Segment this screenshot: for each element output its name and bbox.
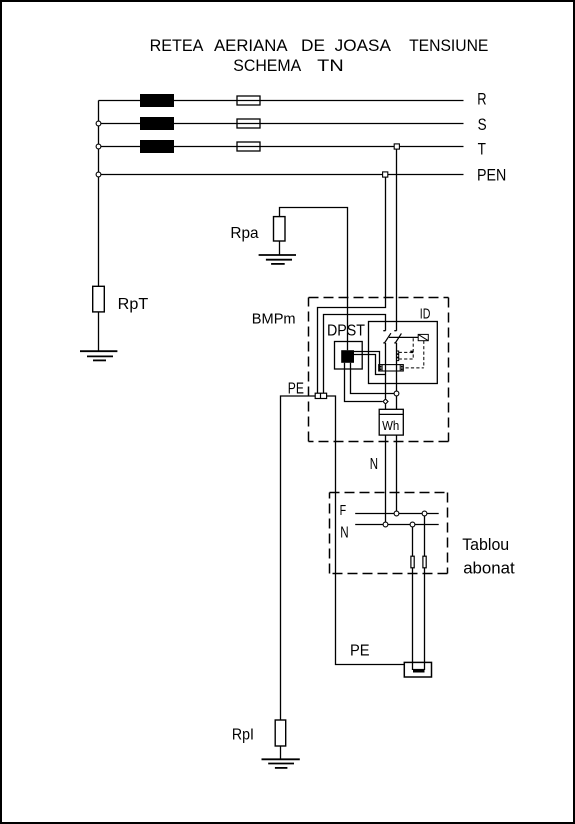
svg-text:SCHEMA: SCHEMA: [233, 56, 302, 75]
svg-text:RpI: RpI: [232, 726, 254, 743]
svg-text:TN: TN: [317, 56, 344, 75]
svg-text:F: F: [340, 503, 347, 519]
svg-text:DE: DE: [301, 36, 325, 55]
svg-text:Tablou: Tablou: [462, 535, 509, 554]
svg-text:N: N: [340, 524, 348, 541]
svg-text:N: N: [370, 456, 378, 473]
svg-text:Wh: Wh: [382, 419, 399, 433]
svg-text:RETEA: RETEA: [150, 36, 204, 55]
svg-text:PE: PE: [350, 642, 370, 659]
svg-text:JOASA: JOASA: [335, 36, 392, 55]
svg-text:T: T: [478, 140, 486, 159]
svg-text:DPST: DPST: [327, 322, 365, 339]
svg-text:BMPm: BMPm: [252, 311, 296, 328]
svg-text:ID: ID: [420, 306, 431, 323]
svg-text:TENSIUNE: TENSIUNE: [409, 36, 488, 55]
svg-text:PEN: PEN: [477, 166, 506, 185]
svg-text:PE: PE: [288, 381, 304, 398]
svg-text:abonat: abonat: [463, 559, 515, 578]
svg-text:AERIANA: AERIANA: [214, 36, 288, 55]
svg-text:R: R: [477, 90, 486, 109]
svg-text:S: S: [478, 115, 487, 134]
svg-text:RpT: RpT: [118, 296, 149, 313]
svg-text:Rpa: Rpa: [230, 225, 258, 242]
